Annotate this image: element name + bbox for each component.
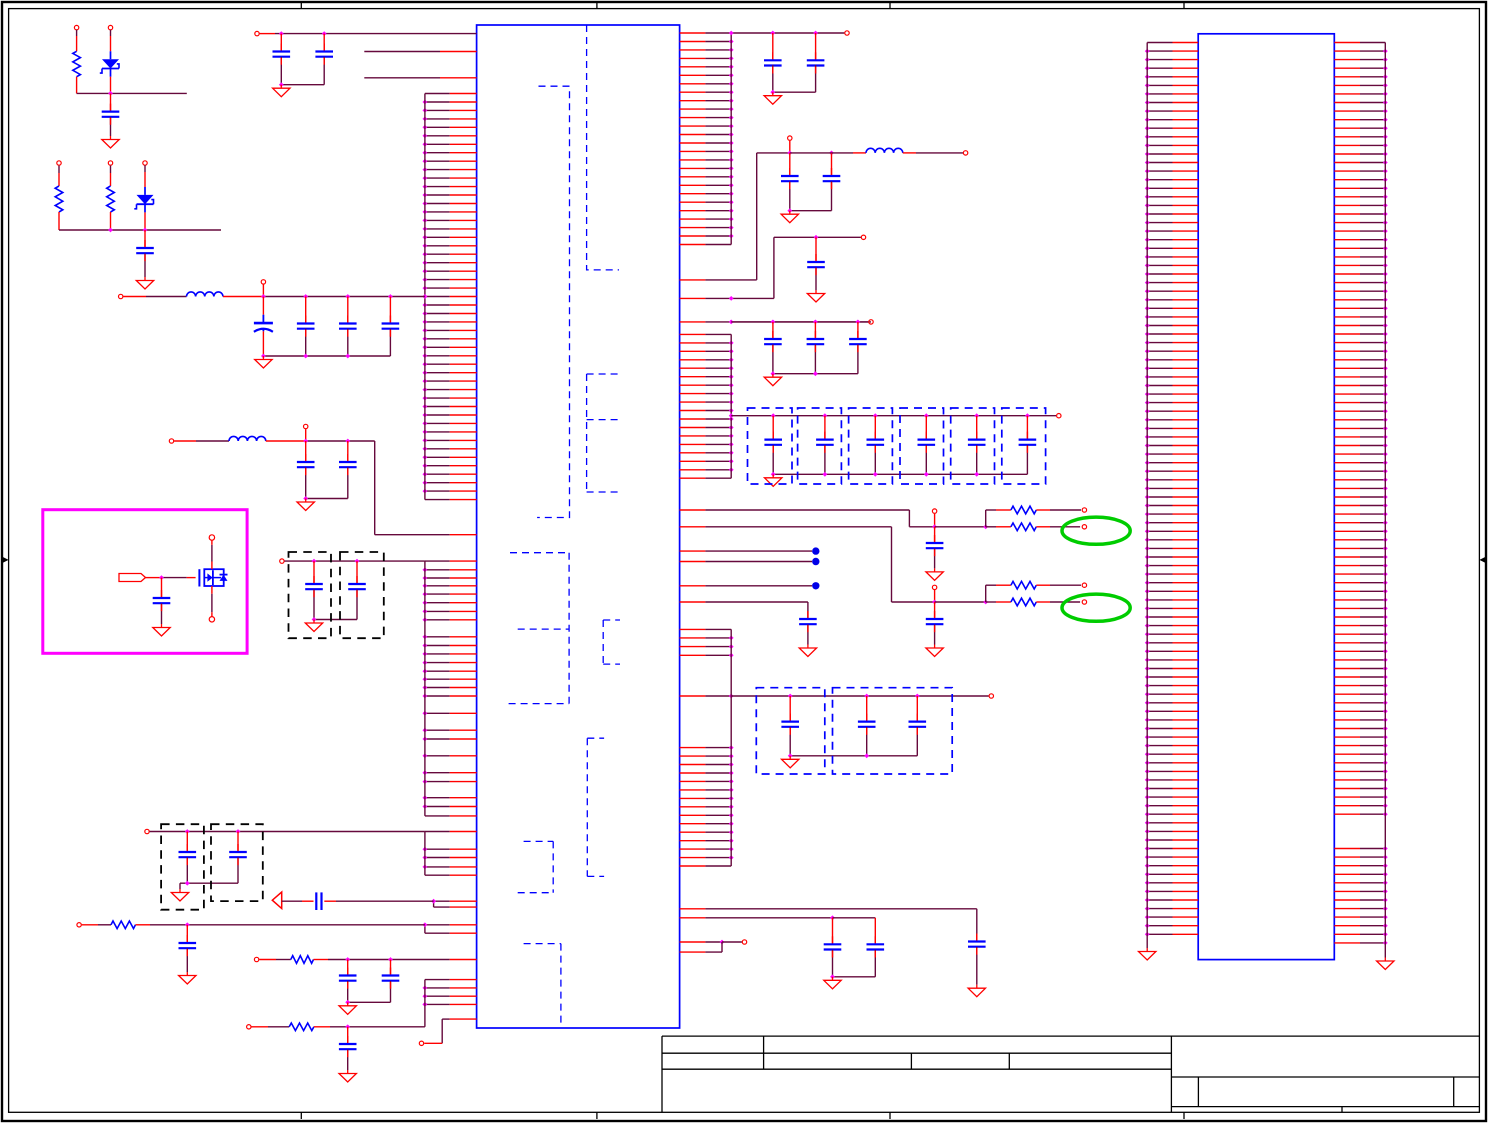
resistor line R2 with 2 caps [254, 956, 399, 1015]
cap to ground wire D [680, 602, 817, 657]
capacitor pin stubs [111, 44, 1028, 1058]
title block [662, 1036, 1479, 1112]
junction node VDD feed [423, 294, 428, 299]
resistor/zener input protection group 1 [73, 25, 187, 148]
wire pin y321.9 [680, 320, 871, 325]
series termination net A [680, 506, 1087, 580]
right filter with 2 caps and inductor [757, 136, 968, 223]
no-connect dot 3 [680, 582, 820, 589]
node bottom-left stub circle [419, 1041, 423, 1045]
op-amp U1 main IC body [477, 25, 680, 1028]
U1 left pin pair A [434, 901, 477, 907]
junction pair B [423, 922, 428, 927]
wire pin y279.9 riser [680, 153, 757, 280]
dashed 3-cap group [731, 688, 993, 774]
bottom cap wire 1 [680, 909, 986, 997]
resistor/zener input protection group 2 [55, 161, 221, 289]
resistor line R3 with cap [247, 1023, 425, 1082]
series capacitor with arrow terminal [272, 892, 433, 910]
bare stub 2 [364, 77, 476, 79]
bottom stub pins [680, 940, 747, 953]
U1 right pin group 2 [680, 334, 734, 478]
capacitor pair C-group 2 (dashed) [145, 824, 425, 910]
series termination net B [680, 527, 1087, 657]
U1 left pin group 3 [423, 832, 477, 876]
resistor line R1 with cap [77, 921, 425, 984]
highlight ellipse 2 [1062, 594, 1130, 621]
top filter caps into U1 [255, 31, 477, 97]
no-connect dot 1 [680, 547, 820, 554]
U1 left pin pair B [425, 925, 477, 933]
bare stub 1 [364, 51, 476, 53]
decoupling cap net beta (3 caps) [731, 320, 873, 386]
highlight ellipse 1 [1062, 517, 1130, 544]
wire pin y534.7 [375, 534, 477, 536]
junction pair A [431, 899, 436, 904]
junction cap-bank tap [729, 413, 734, 418]
decoupling cap net alpha [774, 235, 866, 302]
no-connect dot 2 [680, 558, 820, 565]
wire pin y959.5 entry [391, 959, 477, 961]
wire pin y298.4 [680, 237, 774, 300]
bottom cap wire 2 (2 caps) [680, 915, 885, 988]
U1 right pin group 3 [680, 629, 734, 866]
pi filter A with inductor and 4 caps [119, 280, 425, 368]
connector J1 body [1198, 34, 1334, 960]
U1 internal dashed partitions [509, 25, 620, 1028]
6-capacitor dashed bank [731, 408, 1061, 486]
pi filter B with inductor and 2 caps [169, 424, 374, 534]
transistor Q1 subcircuit (magenta highlight box) [43, 510, 247, 654]
capacitor pair C-group 1 (dashed) [280, 552, 425, 638]
U1 left pin group 2 [423, 561, 477, 816]
U1 left pin group 1 (VDD bus) [423, 94, 477, 500]
U1 left pin group 4 [423, 980, 477, 1027]
connector J1 right pins [1334, 43, 1394, 970]
U1 right pin group 1 [680, 33, 734, 245]
wire pin y1019 to stub [424, 1019, 476, 1043]
top-right cap pair [729, 31, 849, 105]
connector J1 left pins [1139, 43, 1199, 961]
